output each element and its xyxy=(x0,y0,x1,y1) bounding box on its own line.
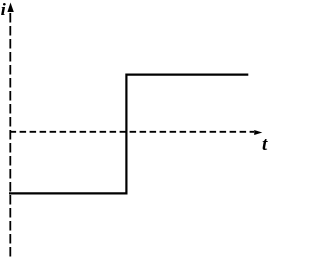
svg-text:i: i xyxy=(1,0,6,19)
svg-text:t: t xyxy=(262,134,268,155)
